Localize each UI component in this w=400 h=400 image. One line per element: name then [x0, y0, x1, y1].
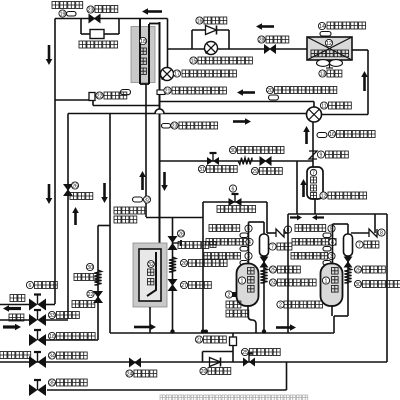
filt27 circle — [180, 281, 187, 288]
wire jog y=225.5 — [98, 225, 110, 227]
oilsep R circle — [356, 241, 363, 248]
wire vertical x=110 upper — [109, 114, 111, 226]
subcooler 18 circle — [139, 37, 146, 44]
circle 3 R — [328, 252, 335, 259]
EEV 17 circle — [173, 70, 180, 77]
wire comp2 to oil sep — [347, 224, 349, 235]
svg-text:9: 9 — [320, 152, 323, 158]
unloading valve 21 symbol — [230, 337, 237, 346]
svg-text:18: 18 — [140, 39, 146, 45]
hp sensor 16 circle — [328, 130, 335, 137]
wire drop x=167.5 to EEV17 — [167, 19, 169, 68]
label 油分 R — [364, 241, 379, 248]
label 室外换热器 in box — [311, 50, 349, 57]
wire comp1 to oil sep — [263, 222, 265, 235]
wire return line y=113.5 to 4way left port — [68, 113, 307, 115]
caption bottom — [160, 395, 308, 400]
label 过滤器 (29) — [260, 168, 283, 175]
label 油温加热带 mid — [328, 192, 367, 199]
oilsep L circle — [269, 243, 276, 250]
defrost bulb 14 circle — [318, 22, 325, 29]
valve liquid service — [29, 299, 38, 311]
label 气管 — [9, 314, 24, 321]
valve34 circle — [48, 352, 55, 359]
flow arrow up beside riser — [302, 185, 305, 197]
label 压力平衡阀 — [217, 206, 256, 213]
label 加热带 L — [226, 310, 249, 317]
label 过滤器 (24) — [134, 370, 157, 377]
wire check8R rise to header — [374, 214, 376, 229]
label 油温 L — [226, 301, 241, 308]
filter 28 circle — [258, 36, 265, 43]
svg-text:32: 32 — [148, 262, 154, 268]
label 汽分出管 line1 — [114, 207, 145, 214]
label 过冷器电子膨胀阀 (17) — [182, 70, 236, 77]
valve28 circle — [177, 230, 184, 237]
filter 23 circle — [87, 6, 94, 13]
wire check16 loop right — [228, 30, 230, 49]
label 过滤器 R — [363, 266, 386, 273]
label 器 vertical — [311, 193, 317, 199]
heater 2 circle L — [225, 291, 232, 298]
gas-liquid separator body — [133, 243, 167, 307]
svg-text:25: 25 — [355, 267, 361, 273]
oil separator 7 R — [344, 234, 353, 256]
compressor 1 circle — [238, 277, 245, 284]
wire bypass top y=351.5 — [203, 351, 234, 353]
label 高压开关 R — [295, 225, 326, 232]
label 过 (vertical) in subcooler — [140, 48, 146, 54]
label 油分 L — [277, 243, 292, 250]
label 感温包 line2 — [114, 216, 137, 223]
svg-text:33: 33 — [49, 313, 55, 319]
svg-text:35: 35 — [49, 380, 55, 386]
comp1 suction elbow — [248, 305, 256, 333]
label 压 vertical L — [248, 268, 255, 275]
cap30 circle — [229, 146, 236, 153]
flow arrow down beside x=159.5 — [163, 172, 166, 185]
wire vertical x=98 (to LP measure valve) — [97, 226, 99, 341]
lp valve circle — [48, 332, 55, 339]
check9 circle — [317, 151, 324, 158]
capsule hp switch L — [240, 233, 248, 238]
cap x98 circle — [86, 263, 93, 270]
cap24 circle — [269, 279, 276, 286]
wire left unit top edge y=202 — [203, 201, 267, 203]
cap30R circle — [354, 280, 361, 287]
valve 33 gas service — [29, 314, 38, 326]
svg-text:15: 15 — [191, 58, 197, 64]
filt29 circle — [251, 167, 258, 174]
wire unload line y=100 — [55, 99, 90, 101]
separator circle — [148, 261, 155, 268]
filter 29 symbol — [260, 157, 271, 165]
label 均油毛细管 (26) — [189, 260, 228, 267]
label 过滤器 (27) — [189, 282, 212, 289]
label 油平衡阀 (34) — [57, 352, 88, 359]
junction dot x=172.5 — [170, 329, 174, 333]
muffler circle — [310, 169, 316, 175]
unload21 circle — [195, 336, 202, 343]
subcooler 18 body — [131, 27, 155, 83]
svg-text:16: 16 — [197, 18, 203, 24]
heater stub L — [232, 292, 237, 297]
label 回油毛细管 R — [363, 281, 400, 288]
capillary on x=98 — [94, 270, 101, 285]
sensor 21 bulb — [121, 90, 131, 95]
circle 3 L — [245, 252, 252, 259]
wire separator-in line y=101.5 — [160, 101, 315, 103]
label 机 vertical L — [248, 286, 255, 293]
wire subcooled liquid drop x=146 — [145, 84, 147, 217]
flow arrow down beside x=55 mid — [48, 184, 51, 198]
wire liquid valve to x=55 — [46, 304, 55, 306]
label 低压测量阀 — [57, 333, 96, 340]
valve 18 LP measuring — [29, 334, 38, 346]
svg-text:24: 24 — [270, 280, 276, 286]
label 排气管感温包 L — [206, 239, 250, 246]
wire right unit top edge y=214 — [288, 213, 387, 215]
fan 13 circle — [319, 70, 326, 77]
wire left unit left edge x=203 — [202, 202, 204, 332]
check8 L circle — [284, 226, 291, 233]
filter 25 L symbol — [261, 257, 268, 267]
label 均油阀2 — [178, 242, 209, 249]
flow arrow right above header R — [276, 326, 290, 329]
svg-text:6: 6 — [29, 283, 32, 289]
capillary 30 gas bypass — [238, 158, 252, 165]
check valve 9 — [309, 151, 317, 159]
svg-text:21: 21 — [196, 337, 202, 343]
svg-text:30: 30 — [230, 148, 236, 154]
sensor 21 stub capsule on line — [157, 90, 165, 95]
wire gas to edge — [0, 319, 29, 321]
crossing hop at x=159.5 — [155, 109, 164, 113]
flow arrow up beside x=68 — [74, 213, 77, 225]
filter 24b symbol — [130, 359, 141, 367]
wire gas valve to x=68 — [46, 319, 68, 321]
valve 6 pressure balance — [229, 198, 236, 206]
filter 28 symbol — [265, 45, 276, 53]
flow arrow down beside x=55 top — [48, 45, 51, 59]
flow arrow up beside x=146 — [141, 177, 144, 190]
wire vertical x=110 lower — [109, 226, 111, 334]
wire oil return R x=348 — [347, 256, 349, 316]
filt22 circle — [87, 290, 94, 297]
capillary 26 oil equalize — [169, 257, 176, 272]
wire vertical x=68 — [67, 114, 69, 320]
wire comp1 discharge top — [249, 221, 265, 223]
svg-text:7: 7 — [271, 244, 274, 250]
heater circle mid — [320, 192, 327, 199]
svg-text:19: 19 — [60, 11, 66, 17]
check 16 circle — [196, 17, 203, 24]
flow arrow left above subcooler — [148, 10, 162, 13]
svg-text:2: 2 — [279, 302, 282, 308]
filter 26 symbol on x=68 — [64, 185, 72, 196]
four-way valve 11 — [307, 107, 322, 122]
wire top-left header H1 — [55, 18, 140, 20]
label 冷 (vertical) in subcooler — [140, 58, 146, 64]
cap26 circle — [180, 259, 187, 266]
sensor 19 bulb — [67, 12, 77, 17]
wire subcooler top-right header — [140, 18, 168, 20]
junction dot x=264 — [262, 329, 266, 333]
wire HX right stub — [352, 49, 368, 51]
wire subcooler outer-left pipe — [139, 19, 141, 85]
label 单向阀 (20) — [208, 368, 231, 375]
label 过滤器 (x68) — [70, 193, 93, 200]
heater 2 circle R — [277, 301, 284, 308]
wire drier bypass bottom-right — [104, 33, 119, 35]
circle 4 L — [246, 238, 253, 245]
wire suction/separator line x=159.5 — [159, 22, 161, 243]
wire HX to 4-way riser x=368 — [367, 50, 369, 115]
check valve 8 R — [369, 229, 377, 237]
filter 22b symbol on x=98 — [94, 292, 102, 303]
label 汽 vertical — [148, 269, 154, 275]
svg-text:30: 30 — [355, 282, 361, 288]
wire subcooler bottom merge — [140, 83, 149, 85]
flow arrow left above liquid line — [262, 25, 274, 28]
valve33 circle — [48, 311, 55, 318]
check8 R circle — [378, 229, 385, 236]
valve 28 oil-equalize 2 — [168, 236, 178, 243]
capillary 30R oil return — [344, 268, 351, 283]
filter 25 R symbol — [345, 257, 352, 267]
label 气旁通毛细管 (30) — [238, 147, 285, 154]
wire check16 loop top — [192, 29, 229, 31]
svg-text:20: 20 — [201, 369, 207, 375]
svg-text:22: 22 — [97, 93, 103, 99]
svg-text:18: 18 — [49, 334, 55, 340]
label 卸荷阀 (22) — [104, 92, 127, 99]
label 风机 (13) — [327, 70, 342, 77]
svg-text:2: 2 — [228, 292, 231, 298]
label 四通阀 (11) — [329, 102, 352, 109]
junction dot near x=206 — [204, 330, 208, 334]
wire comp2 suction drop — [333, 316, 335, 333]
label 器 (vertical) in subcooler — [140, 68, 146, 74]
wire comp2 discharge top — [333, 223, 349, 225]
compressor 1 body — [237, 264, 259, 307]
wire LP measure to x=98 — [46, 339, 98, 341]
wire oilsep R to check — [351, 232, 369, 234]
wire unload21 drop — [232, 346, 234, 352]
label 汽气分进管感温包 (20) — [275, 87, 337, 94]
label 缩 vertical L — [248, 277, 255, 284]
unloading valve 22 symbol — [89, 93, 95, 101]
op-valve 17 subcooler EEV — [161, 68, 174, 81]
label 过滤器 (25) — [278, 266, 301, 273]
label 气旁通阀 (31) — [207, 166, 238, 173]
small valve 6 circle — [26, 281, 33, 288]
filter 27 symbol — [169, 280, 177, 291]
label 液管 — [10, 295, 25, 302]
label 卸荷阀 (21) — [204, 336, 227, 343]
filter26 circle — [71, 182, 78, 189]
wire liquid to edge — [0, 304, 29, 306]
svg-text:26: 26 — [72, 183, 78, 189]
unload 22 circle — [96, 92, 103, 99]
wire muffler bottom drop — [314, 199, 316, 214]
valve 25 oil equalize 1 — [243, 358, 249, 367]
label 毛细管 (x98) — [74, 274, 97, 281]
label 油平衡管 — [0, 352, 31, 359]
label 干燥过滤器 — [79, 41, 118, 48]
svg-text:11: 11 — [321, 103, 326, 109]
comp2 suction elbow — [331, 305, 333, 316]
wire subcooler inner top loop — [149, 23, 160, 25]
svg-text:21: 21 — [165, 88, 171, 94]
label 高压开关 L — [209, 225, 240, 232]
valve 35 oil check — [29, 384, 38, 396]
capillary 24 oil return L — [260, 268, 267, 283]
wire liquid line y=49 right part — [275, 48, 307, 50]
label 小阀门 (6) — [35, 282, 58, 289]
wire liquid line y=49 left part — [168, 48, 266, 50]
pb valve circle — [229, 185, 236, 192]
lowpress circle — [171, 122, 178, 129]
svg-text:13: 13 — [320, 71, 326, 77]
wire bypass left drop — [202, 352, 204, 363]
svg-text:7: 7 — [358, 242, 361, 248]
wire discharge riser x=297 — [296, 161, 298, 214]
EEV 15 circle — [190, 57, 197, 64]
compressor 2 body — [321, 264, 343, 307]
flow arrow up beside x=313 — [305, 132, 308, 144]
svg-text:23: 23 — [172, 123, 178, 129]
wire drier bypass bottom-left — [81, 33, 90, 35]
fan 13 blades — [317, 60, 343, 68]
sensor 20 circle — [266, 86, 273, 93]
filt24b circle — [126, 370, 133, 377]
wire check8L to x288 — [284, 232, 288, 234]
wire comp2 discharge up — [332, 224, 334, 264]
HX 12 circle — [325, 39, 332, 46]
svg-text:34: 34 — [49, 353, 55, 359]
oil separator 7 L — [260, 234, 269, 256]
circle 5 R — [328, 225, 335, 232]
label 壳顶感温包 R — [291, 253, 328, 260]
sensor lowpress bulb — [162, 124, 171, 129]
drier filter box — [90, 30, 104, 39]
label 油检测阀 (35) — [57, 379, 88, 386]
op-valve 15 heating EEV — [205, 42, 218, 55]
wire check16 loop left — [191, 30, 193, 49]
wire comp1 discharge up — [248, 222, 250, 264]
label 储 vertical — [311, 177, 317, 183]
svg-text:25: 25 — [242, 350, 248, 356]
flow arrow down beside x=110 — [103, 183, 106, 197]
wire separator top header y=217.5 — [146, 217, 203, 219]
label 油 vertical — [311, 185, 317, 191]
wire right edge vertical x=387 — [386, 214, 388, 362]
flow arrow right gas in — [3, 325, 15, 328]
wire 4way top stub — [313, 102, 315, 108]
label 排气管感温包 R — [292, 239, 336, 246]
svg-text:1: 1 — [325, 278, 328, 284]
label 均油阀1 — [250, 349, 281, 356]
label 分 vertical — [148, 279, 154, 285]
svg-text:27: 27 — [181, 283, 187, 289]
check valve 8 L — [276, 229, 284, 237]
capsule discharge bulb R — [323, 247, 331, 252]
svg-text:1: 1 — [241, 278, 244, 284]
flow arrow left liquid out — [9, 307, 21, 310]
wire 4way bottom to muffler — [312, 122, 314, 168]
wire oil check line y=390 — [47, 389, 287, 391]
valve 34 oil balance — [29, 356, 38, 368]
filter 23 symbol — [89, 15, 100, 23]
wire check8R stub — [374, 229, 376, 233]
svg-text:7: 7 — [312, 170, 315, 176]
capsule shell bulb R — [323, 261, 331, 266]
wire drop x=286.5 — [286, 362, 288, 390]
sensor 21 circle — [164, 87, 171, 94]
valve31 circle — [198, 165, 205, 172]
label 大阀门 (33) — [57, 312, 80, 319]
wire oil return L x=264 — [263, 256, 265, 332]
sensor sep-out bulb — [133, 197, 143, 202]
wire subcooler inner-left pipe — [148, 24, 150, 84]
wire gas bypass y=161 — [160, 160, 314, 162]
flow arrow right on y=214 — [290, 216, 297, 218]
wire 4way right port line — [322, 114, 369, 116]
svg-text:23: 23 — [88, 7, 94, 13]
wire unload jog down — [92, 100, 94, 106]
flow arrow right below y=113.5 — [233, 120, 245, 123]
svg-text:12: 12 — [326, 41, 332, 47]
label 机 vertical R — [332, 286, 339, 293]
wire unload line y=105.5 — [93, 105, 160, 107]
outdoor heat exchanger 12 box — [307, 37, 352, 60]
wire suction header y=333 — [110, 332, 334, 334]
svg-text:25: 25 — [270, 267, 276, 273]
sensor 19 circle — [59, 10, 66, 17]
label 过冷器出感温包 (21) — [172, 87, 226, 94]
svg-text:14: 14 — [319, 24, 325, 30]
4way 11 circle — [320, 102, 327, 109]
sensor 20 bulb on y=101.5 — [269, 95, 279, 100]
label 单向阀 (16) — [204, 17, 227, 24]
circle 5 L — [245, 225, 252, 232]
capsule hp switch R — [323, 233, 331, 238]
valve 31 gas bypass — [207, 157, 213, 165]
oil reservoir / muffler — [307, 167, 323, 199]
defrost bulb capsule — [320, 32, 331, 37]
valve35 circle — [48, 379, 55, 386]
svg-text:6: 6 — [232, 186, 235, 192]
filt25 circle — [269, 266, 276, 273]
svg-text:8: 8 — [380, 230, 383, 236]
svg-text:17: 17 — [174, 71, 180, 77]
flow arrow left above y=101.5 — [243, 91, 255, 94]
label 制热电子膨胀阀 (15) — [198, 57, 252, 64]
label 壳顶感温包 L — [204, 253, 241, 260]
wire oilsep L to check — [267, 232, 276, 234]
flow arrow left on y=214 — [317, 216, 324, 218]
svg-text:29: 29 — [252, 169, 258, 175]
label 高压传感器 (16) — [337, 131, 376, 138]
svg-text:12: 12 — [321, 193, 327, 199]
label 化霜感温包 (14) — [327, 22, 366, 29]
label 压 vertical R — [332, 268, 339, 275]
wire drier bypass left drop — [80, 19, 82, 35]
valve25 circle — [241, 348, 248, 355]
label 过滤器 (23) — [95, 6, 118, 13]
label 单向阀 (9) — [326, 151, 349, 158]
